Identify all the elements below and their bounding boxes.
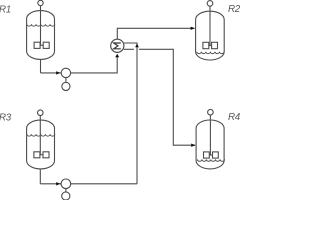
reactor R2 [196,1,225,60]
arrowhead into mixer bottom [115,54,119,58]
valve V1 (sensor circles) [61,68,70,90]
svg-text:R4: R4 [228,112,240,123]
reactor R3 [27,110,55,169]
reactor R1 [27,0,55,59]
arrowhead up at riser top [135,44,139,48]
svg-text:R1: R1 [0,5,11,16]
wire valve V1 to mixer [71,56,118,73]
svg-text:R3: R3 [0,113,12,124]
wire riser up to mixer input [124,43,137,184]
svg-text:R2: R2 [228,4,240,15]
wire valve V2 to riser [71,183,137,185]
mixer M (summing junction) [111,39,124,52]
reactor R4 [196,109,224,169]
wire mixer to R4 (right of crossing) [139,49,195,145]
wire R1 outlet right [41,72,62,74]
valve V2 (sensor circles) [61,179,71,200]
wire R3 outlet right [40,183,61,185]
wire R3 outlet down [39,169,41,184]
arrowhead into R2 [191,27,195,30]
arrowhead into R4 [191,144,195,147]
wire R1 outlet down [40,59,42,73]
arrowhead into valve V2 [56,182,60,185]
wire mixer to R2 [117,28,194,39]
wire mixer to R4 (left of crossing) [124,48,134,50]
arrowhead into valve V1 [56,71,60,74]
